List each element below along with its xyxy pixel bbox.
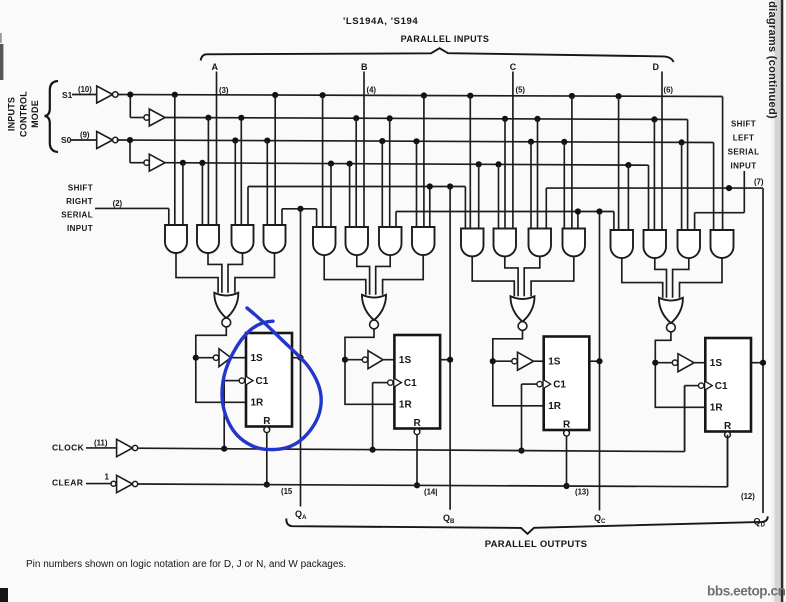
pin label (9) xyxy=(80,130,90,139)
svg-text:R: R xyxy=(263,416,271,427)
svg-text:(9): (9) xyxy=(80,130,90,139)
wire S1 rail xyxy=(165,118,688,120)
label R of FF-B xyxy=(414,418,422,429)
wire QC net xyxy=(396,212,614,231)
wire FF-C output xyxy=(589,360,599,362)
junction clock tap C xyxy=(518,448,524,454)
svg-text:(11): (11) xyxy=(94,439,108,448)
inverter S0 buffer xyxy=(144,154,165,171)
wire tap to S1 buffer xyxy=(130,95,144,118)
wire clock tap A xyxy=(224,381,239,449)
wire clock tap C xyxy=(522,384,537,451)
inverter C (S input) xyxy=(512,352,544,370)
wire S1-bar rail xyxy=(118,95,723,97)
junction rail2 stage A xyxy=(238,115,244,121)
wire input D drop xyxy=(661,72,663,231)
inverter B (S input) xyxy=(362,351,394,369)
AND gate D4 xyxy=(711,97,734,259)
svg-text:C1: C1 xyxy=(256,376,269,387)
wire clock lead xyxy=(86,447,117,449)
wire NOR D output to 1R xyxy=(655,332,705,407)
svg-text:CLEAR: CLEAR xyxy=(52,477,83,487)
junction QD drop xyxy=(726,185,732,191)
wire clock tap B xyxy=(373,383,388,450)
AND gate A1 xyxy=(165,95,187,253)
junction rail1 stage D xyxy=(616,93,622,99)
wire QD vertical xyxy=(762,188,764,513)
AND gate C3 xyxy=(529,119,552,257)
svg-text:(5): (5) xyxy=(516,85,526,94)
svg-text:R: R xyxy=(563,420,571,431)
AND gate B1 xyxy=(313,95,336,255)
pin label (2) xyxy=(113,199,123,208)
wire S0 rail xyxy=(165,163,649,166)
svg-text:C: C xyxy=(510,62,517,72)
reset bubble FF-B xyxy=(414,429,420,435)
brace parallel outputs xyxy=(286,516,767,533)
svg-text:1S: 1S xyxy=(399,355,412,366)
junction S0 rail tap xyxy=(127,137,133,143)
svg-text:SHIFT: SHIFT xyxy=(731,120,756,129)
NOR gate C xyxy=(510,296,534,330)
pin label (11) xyxy=(94,439,108,448)
wire NOR C output to 1R xyxy=(493,330,544,405)
wire A3 output xyxy=(228,253,243,293)
label 1S of FF-C xyxy=(548,357,561,368)
flip-flop FF-B xyxy=(394,335,440,429)
wire node to inverter B xyxy=(345,359,362,361)
junction rail2 stage C xyxy=(502,116,508,122)
svg-text:C1: C1 xyxy=(715,381,728,392)
wire C2 output xyxy=(505,257,518,297)
svg-text:(15: (15 xyxy=(281,487,293,496)
wire A4 output xyxy=(235,253,275,293)
svg-text:(4): (4) xyxy=(367,85,377,94)
pin label (15 xyxy=(281,487,293,496)
AND gate A2 xyxy=(197,118,219,253)
inverter A (S input) xyxy=(213,349,246,367)
junction rail2 stage A xyxy=(205,115,211,121)
svg-text:INPUT: INPUT xyxy=(67,224,93,233)
svg-text:A: A xyxy=(212,62,219,72)
junction rail4 stage D xyxy=(625,162,631,168)
junction rail4 stage C xyxy=(495,161,501,167)
junction rail2 stage B xyxy=(353,115,359,121)
wire D1 output xyxy=(622,258,663,298)
svg-text:D: D xyxy=(652,62,659,72)
wire A2 output xyxy=(208,253,222,293)
junction rail3 stage C xyxy=(528,139,534,145)
svg-text:S1: S1 xyxy=(62,90,73,100)
svg-text:R: R xyxy=(414,418,422,429)
junction rail4 stage A xyxy=(199,160,205,166)
wire input B drop xyxy=(363,72,365,228)
junction QC tap xyxy=(596,208,602,214)
pin label (14| xyxy=(424,488,437,497)
wire B2 output xyxy=(357,255,370,295)
reset bubble FF-A xyxy=(264,427,270,433)
junction QB drop xyxy=(427,183,433,189)
annotation blue circle xyxy=(222,308,321,450)
title text xyxy=(343,16,418,27)
AND gate D1 xyxy=(611,96,634,258)
wire QB net xyxy=(248,187,465,229)
wire A1 output xyxy=(176,253,218,293)
svg-text:1R: 1R xyxy=(399,400,413,411)
label S0 xyxy=(61,135,72,145)
junction QA tap xyxy=(297,206,303,212)
label input D xyxy=(652,62,659,72)
svg-text:'LS194A, 'S194: 'LS194A, 'S194 xyxy=(343,16,418,27)
label 1R of FF-B xyxy=(399,400,413,411)
junction clear tap A xyxy=(264,482,270,488)
wire clear tap D xyxy=(727,438,729,487)
inverter S1 xyxy=(97,86,118,103)
junction clear tap B xyxy=(414,482,420,488)
label input C xyxy=(510,62,517,72)
svg-text:MODE: MODE xyxy=(30,100,40,128)
junction clear tap C xyxy=(563,483,569,489)
junction rail3 stage C xyxy=(561,139,567,145)
pin label (4) xyxy=(367,85,377,94)
wire QC vertical xyxy=(599,212,601,511)
AND gate B2 xyxy=(346,118,369,255)
junction QB tap xyxy=(447,183,453,189)
clock input symbol FF-D xyxy=(699,381,713,389)
label input A xyxy=(212,62,219,72)
label PARALLEL INPUTS xyxy=(401,34,490,44)
svg-text:(13): (13) xyxy=(575,488,589,497)
wire S0-bar rail xyxy=(117,140,714,143)
brace mode control xyxy=(45,81,59,152)
label S1 xyxy=(62,90,73,100)
wire QA vertical xyxy=(300,209,302,507)
label 1S of FF-B xyxy=(399,355,412,366)
label 1R of FF-A xyxy=(251,398,265,409)
svg-text:LEFT: LEFT xyxy=(733,134,755,143)
svg-text:C1: C1 xyxy=(404,378,417,389)
wire input C drop xyxy=(512,72,514,229)
wire B3 output xyxy=(376,255,391,295)
svg-text:diagrams (continued): diagrams (continued) xyxy=(766,1,778,119)
pin label (5) xyxy=(516,85,526,94)
NOR gate D xyxy=(659,298,683,332)
svg-text:C1: C1 xyxy=(553,380,566,391)
svg-text:CLOCK: CLOCK xyxy=(52,443,85,453)
wire clock tap D xyxy=(685,386,699,452)
svg-text:B: B xyxy=(361,62,368,72)
junction rail3 stage B xyxy=(379,138,385,144)
wire shift left serial xyxy=(695,171,745,230)
junction clock tap B xyxy=(370,447,376,453)
svg-text:1R: 1R xyxy=(548,401,562,412)
wire FF-D output xyxy=(751,362,763,364)
wire B1 output xyxy=(324,255,366,295)
label CLEAR xyxy=(52,477,83,487)
svg-text:1R: 1R xyxy=(710,403,724,414)
footnote text xyxy=(26,559,346,570)
label QB xyxy=(443,513,455,525)
label C1 of FF-B xyxy=(404,378,417,389)
wire QB vertical xyxy=(449,187,451,510)
pin label (12) xyxy=(741,492,755,501)
wire FF-A output xyxy=(292,357,301,359)
page edge line xyxy=(781,0,786,602)
junction S1 rail tap xyxy=(127,92,133,98)
flip-flop FF-D xyxy=(705,338,751,432)
pin label (10) xyxy=(78,85,92,94)
label MODE CONTROL INPUTS xyxy=(7,91,41,137)
label QD xyxy=(754,517,766,529)
svg-text:(14|: (14| xyxy=(424,488,437,497)
AND gate A3 xyxy=(232,118,254,253)
pin label (6) xyxy=(664,86,674,95)
svg-text:bbs.eetop.cn: bbs.eetop.cn xyxy=(707,584,786,599)
label 1S of FF-A xyxy=(251,353,264,364)
svg-text:R: R xyxy=(724,421,732,432)
flip-flop FF-A xyxy=(246,333,292,427)
junction rail3 stage A xyxy=(264,138,270,144)
junction rail1 stage C xyxy=(467,93,473,99)
svg-text:1S: 1S xyxy=(548,357,561,368)
clock input symbol FF-A xyxy=(239,376,253,384)
junction QC drop xyxy=(575,208,581,214)
svg-text:1S: 1S xyxy=(251,353,264,364)
wire clock rail xyxy=(138,386,685,452)
junction rail4 stage A xyxy=(180,160,186,166)
wire S1 lead xyxy=(72,94,97,96)
svg-text:(12): (12) xyxy=(741,492,755,501)
junction rail2 stage B xyxy=(387,115,393,121)
wire D2 output xyxy=(655,258,667,298)
wire C4 output xyxy=(531,257,574,297)
wire C3 output xyxy=(524,257,540,297)
junction rail1 stage B xyxy=(320,92,326,98)
clock input symbol FF-B xyxy=(388,378,402,386)
label C1 of FF-A xyxy=(256,376,269,387)
junction rail4 stage C xyxy=(476,161,482,167)
pin label 1 (clear) xyxy=(105,473,110,482)
wire D3 output xyxy=(673,258,689,298)
label C1 of FF-C xyxy=(553,380,566,391)
label input B xyxy=(361,62,368,72)
label PARALLEL OUTPUTS xyxy=(485,539,588,550)
node B S-branch xyxy=(342,357,348,363)
wire NOR B output to 1R xyxy=(345,329,394,404)
wire NOR A output to 1R xyxy=(196,327,246,402)
svg-text:PARALLEL INPUTS: PARALLEL INPUTS xyxy=(401,34,490,44)
wire QA net xyxy=(282,209,317,227)
junction rail1 stage B xyxy=(421,92,427,98)
NOR gate A xyxy=(214,293,238,327)
wire input A drop xyxy=(216,72,218,226)
wire S0 lead xyxy=(70,139,97,141)
AND gate D2 xyxy=(644,119,667,258)
wire clear tap A xyxy=(266,433,268,485)
wire B4 output xyxy=(383,255,424,295)
inverter S1 buffer xyxy=(144,109,165,126)
node D S-branch xyxy=(652,360,658,366)
flip-flop FF-C xyxy=(544,337,590,431)
NOR gate B xyxy=(362,295,386,329)
label 1R of FF-D xyxy=(710,403,724,414)
svg-text:(3): (3) xyxy=(219,86,229,95)
junction clock tap A xyxy=(221,446,227,452)
brace parallel inputs xyxy=(201,48,674,62)
junction rail1 stage A xyxy=(272,92,278,98)
wire clear rail xyxy=(138,435,728,487)
wire node to inverter C xyxy=(493,360,512,362)
pin label (13) xyxy=(575,488,589,497)
wire D4 output xyxy=(680,258,723,298)
node A S-branch xyxy=(193,355,199,361)
inverter clear xyxy=(111,475,138,492)
label R of FF-A xyxy=(263,416,271,427)
wire clear tap C xyxy=(566,436,568,486)
reset bubble FF-D xyxy=(725,432,731,438)
label R of FF-C xyxy=(563,420,571,431)
AND gate D3 xyxy=(678,120,701,259)
svg-text:1R: 1R xyxy=(251,398,265,409)
page edge shading xyxy=(771,0,781,602)
AND gate C1 xyxy=(461,96,484,257)
AND gate A4 xyxy=(264,95,286,253)
wire C1 output xyxy=(472,257,514,297)
left page-edge mark xyxy=(0,33,3,80)
label R of FF-D xyxy=(724,421,732,432)
wire node to inverter A xyxy=(196,357,214,359)
label QC xyxy=(594,513,606,525)
junction rail1 stage C xyxy=(569,93,575,99)
reset bubble FF-C xyxy=(564,430,570,436)
junction QB output xyxy=(447,357,453,363)
label 1R of FF-C xyxy=(548,401,562,412)
junction rail2 stage D xyxy=(651,116,657,122)
svg-text:INPUTS: INPUTS xyxy=(7,97,17,131)
inverter D (S input) xyxy=(672,354,705,372)
wire shift right serial xyxy=(95,208,169,225)
svg-text:(10): (10) xyxy=(78,85,92,94)
junction rail3 stage A xyxy=(232,137,238,143)
inverter clock xyxy=(117,439,138,456)
junction rail2 stage C xyxy=(534,116,540,122)
wire clear lead xyxy=(86,483,111,485)
junction rail4 stage B xyxy=(347,161,353,167)
svg-text:PARALLEL OUTPUTS: PARALLEL OUTPUTS xyxy=(485,539,588,550)
label SHIFT RIGHT SERIAL INPUT xyxy=(61,184,93,234)
label QA xyxy=(295,509,307,521)
wire tap to S0 buffer xyxy=(130,140,144,163)
svg-text:RIGHT: RIGHT xyxy=(66,197,93,206)
junction rail1 stage A xyxy=(172,92,178,98)
junction rail4 stage B xyxy=(328,161,334,167)
label CLOCK xyxy=(52,443,85,453)
svg-text:SHIFT: SHIFT xyxy=(68,184,93,193)
clock input symbol FF-C xyxy=(537,380,551,388)
AND gate C2 xyxy=(494,119,517,257)
junction QA output xyxy=(297,355,303,361)
label SHIFT LEFT SERIAL INPUT xyxy=(728,120,760,171)
AND gate C4 xyxy=(563,96,586,256)
svg-text:(6): (6) xyxy=(664,86,674,95)
svg-text:1: 1 xyxy=(105,473,110,482)
pin label (3) xyxy=(219,86,229,95)
watermark bbs.eetop.cn xyxy=(707,584,786,599)
pin label (7) xyxy=(754,178,764,187)
inverter S0 xyxy=(97,132,118,149)
node C S-branch xyxy=(490,358,496,364)
svg-text:Pin numbers shown on logic not: Pin numbers shown on logic notation are … xyxy=(26,559,346,570)
rotated margin text diagrams (continued) xyxy=(766,1,778,119)
svg-text:CONTROL: CONTROL xyxy=(19,91,29,137)
svg-text:(7): (7) xyxy=(754,178,764,187)
junction rail3 stage B xyxy=(413,138,419,144)
svg-text:1S: 1S xyxy=(710,358,723,369)
svg-text:SERIAL: SERIAL xyxy=(728,148,760,157)
wire clear tap B xyxy=(416,435,418,486)
wire node to inverter D xyxy=(655,362,672,364)
wire QD net xyxy=(546,188,763,228)
label C1 of FF-D xyxy=(715,381,728,392)
wire FF-B output xyxy=(440,359,450,361)
bottom-left black bar xyxy=(0,588,8,602)
junction QC output xyxy=(596,358,602,364)
AND gate B3 xyxy=(379,118,402,255)
junction rail3 stage D xyxy=(679,139,685,145)
AND gate B4 xyxy=(412,96,435,256)
junction QD output xyxy=(760,360,766,366)
svg-text:SERIAL: SERIAL xyxy=(61,211,93,220)
svg-text:INPUT: INPUT xyxy=(731,162,757,171)
svg-text:(2): (2) xyxy=(113,199,123,208)
label 1S of FF-D xyxy=(710,358,723,369)
